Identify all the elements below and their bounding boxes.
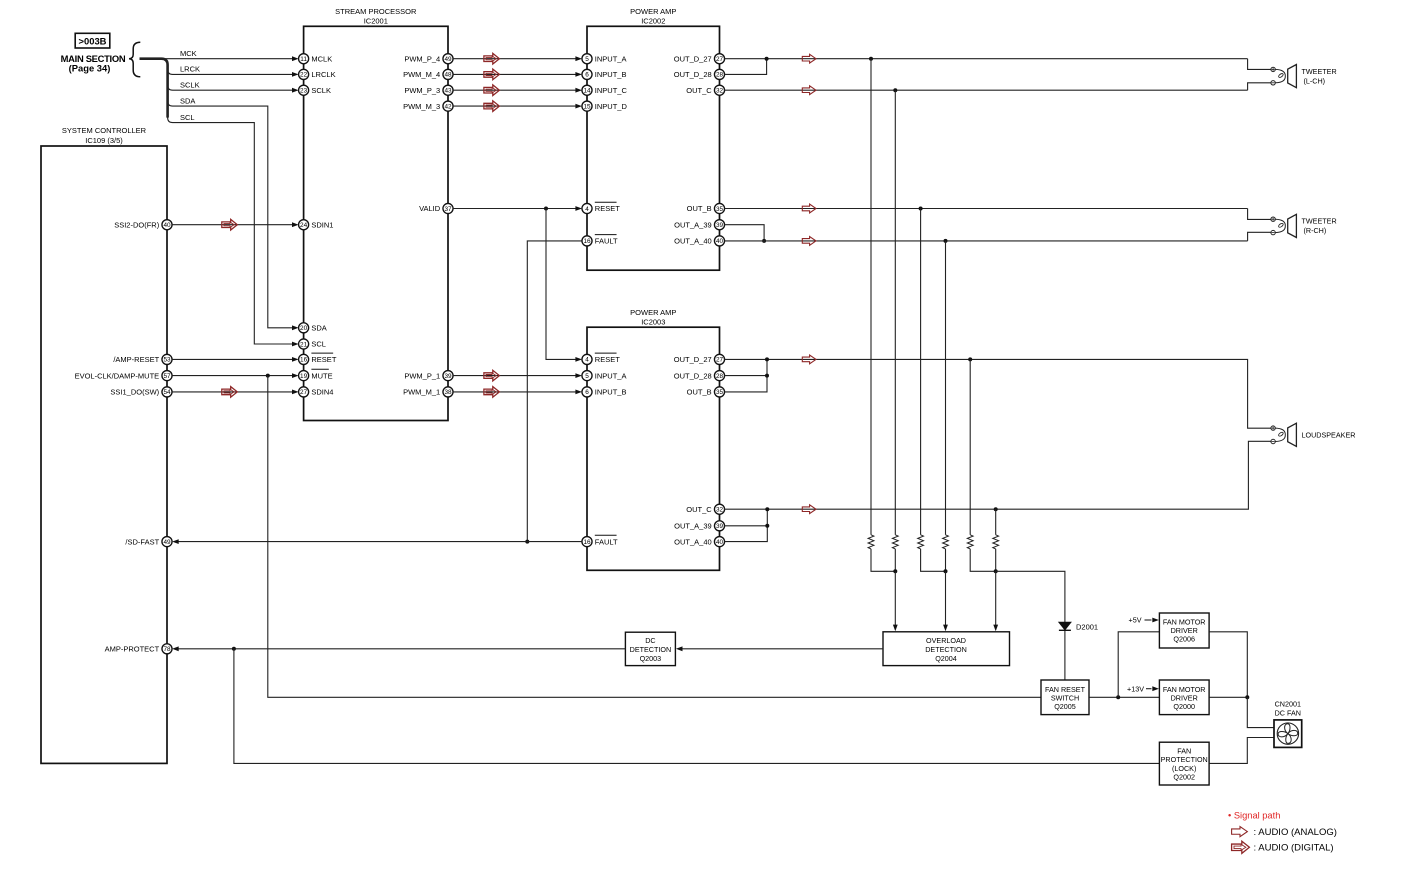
svg-text:EVOL-CLK/DAMP-MUTE: EVOL-CLK/DAMP-MUTE — [75, 371, 160, 380]
pin 38 PWM_M_1 (IC2001 right) — [403, 387, 453, 397]
svg-text:D2001: D2001 — [1076, 623, 1098, 632]
wire EVOL-CLK to MUTE — [172, 373, 299, 378]
svg-text:(L-CH): (L-CH) — [1304, 76, 1326, 85]
wire LRCK — [168, 65, 299, 77]
svg-text:PWM_M_1: PWM_M_1 — [403, 388, 440, 397]
wire drivers to fan — [1247, 697, 1274, 727]
junction VALID — [544, 207, 548, 211]
junction tap2 — [893, 88, 897, 92]
svg-text:DC: DC — [645, 636, 655, 645]
svg-text:19: 19 — [300, 373, 308, 380]
svg-text:INPUT_C: INPUT_C — [595, 86, 628, 95]
svg-text:+5V: +5V — [1129, 616, 1142, 625]
tweeter R-CH — [1271, 214, 1337, 237]
wire riser to Q2006 — [1118, 632, 1159, 698]
wire EVOL branch to fan reset switch — [268, 376, 1041, 698]
wire tap vertical 1 — [870, 59, 872, 535]
wire PWM_P_1 to INPUT_A IC2003 — [453, 370, 582, 381]
svg-text:IC2001: IC2001 — [364, 17, 388, 26]
dc detection Q2003 box — [625, 632, 675, 665]
svg-text:VALID: VALID — [419, 204, 441, 213]
svg-text:MCK: MCK — [180, 49, 197, 58]
svg-text:INPUT_D: INPUT_D — [595, 102, 628, 111]
svg-text:INPUT_B: INPUT_B — [595, 70, 627, 79]
junction OUT_D IC2003 join top — [765, 357, 769, 361]
wire PWM_M_1 to INPUT_B IC2003 — [453, 387, 582, 398]
svg-text:+13V: +13V — [1127, 684, 1144, 693]
power amp IC2002 box — [587, 7, 720, 270]
wire FAULT IC2002 down — [527, 241, 582, 542]
wire OUT_A_39 IC2003 link — [724, 525, 767, 527]
wire OUT_C IC2002 to tweeter L — [724, 86, 1247, 95]
svg-text:OUT_D_27: OUT_D_27 — [674, 355, 712, 364]
pin 28 OUT_D_28 (IC2003 right) — [674, 371, 725, 381]
pin 6 INPUT_B (IC2003 left) — [582, 387, 627, 397]
svg-text:48: 48 — [444, 72, 452, 79]
svg-text:27: 27 — [300, 389, 308, 396]
svg-text:RESET: RESET — [311, 355, 336, 364]
svg-text:AMP-PROTECT: AMP-PROTECT — [105, 645, 160, 654]
svg-text:(LOCK): (LOCK) — [1172, 764, 1196, 773]
pin 16 FAULT (IC2003 left) — [582, 535, 618, 546]
svg-text:PWM_P_4: PWM_P_4 — [404, 54, 440, 63]
pin 15 INPUT_D (IC2002 left) — [582, 101, 628, 111]
power amp IC2003 box — [587, 308, 720, 570]
legend digital arrow — [1232, 841, 1334, 853]
svg-text:40: 40 — [716, 539, 724, 546]
resistor 3 — [918, 535, 924, 549]
svg-text:32: 32 — [716, 507, 724, 514]
wire tweeter L steps — [1248, 59, 1271, 70]
svg-text:>003B: >003B — [79, 36, 107, 47]
svg-text:(R-CH): (R-CH) — [1304, 226, 1327, 235]
pin 39 OUT_A_39 (IC2002 right) — [674, 220, 724, 230]
svg-text:OUT_D_28: OUT_D_28 — [674, 371, 712, 380]
junction OUT_D IC2003 join mid — [765, 374, 769, 378]
svg-text:14: 14 — [583, 88, 591, 95]
svg-text:PWM_P_1: PWM_P_1 — [404, 371, 440, 380]
svg-text:27: 27 — [716, 56, 724, 63]
junction tap4 — [944, 239, 948, 243]
svg-text:23: 23 — [300, 88, 308, 95]
wire dc detection to AMP-PROTECT — [172, 646, 625, 651]
pin 11 MCLK (IC2001 left) — [299, 54, 333, 64]
pin 27 OUT_D_27 (IC2002 right) — [674, 54, 725, 64]
junction OUT_A39 IC2003 join — [765, 524, 769, 528]
svg-text:SDA: SDA — [180, 96, 195, 105]
resistor 1 — [868, 535, 874, 549]
resistor 2 — [892, 535, 898, 549]
junction tap5 — [968, 357, 972, 361]
wire pair1 into overload detection — [893, 571, 898, 631]
pin 23 SCLK (IC2001 left) — [299, 85, 331, 95]
svg-text:Q2004: Q2004 — [935, 654, 957, 663]
resistor 4 — [943, 535, 949, 549]
wire branch to fan protection — [234, 649, 1160, 764]
junction driver outputs — [1245, 695, 1249, 699]
wire OUT_B to tweeter R — [724, 204, 1247, 213]
svg-text:42: 42 — [444, 103, 452, 110]
svg-text:39: 39 — [716, 222, 724, 229]
svg-text:Q2000: Q2000 — [1173, 702, 1195, 711]
svg-text:RESET: RESET — [595, 355, 620, 364]
svg-text:4: 4 — [585, 206, 589, 213]
svg-text:OUT_B: OUT_B — [687, 204, 712, 213]
wire OUT_A_40 IC2003 link — [724, 509, 767, 541]
svg-text:SDIN1: SDIN1 — [311, 220, 333, 229]
wire OUT_D_27 to tweeter L — [724, 54, 1247, 63]
wire tap vertical 4 — [945, 241, 947, 535]
svg-text:LRCLK: LRCLK — [311, 70, 335, 79]
fan motor driver Q2000 box — [1159, 680, 1209, 715]
pin 35 OUT_B (IC2003 right) — [687, 387, 725, 397]
pin 16 FAULT (IC2002 left) — [582, 235, 618, 246]
svg-text:INPUT_A: INPUT_A — [595, 371, 627, 380]
system controller IC109 box — [41, 126, 167, 763]
svg-text:6: 6 — [585, 72, 589, 79]
wire SCL — [168, 113, 299, 347]
wire SSI2-DO to SDIN1 — [172, 219, 299, 230]
resistor 6 — [993, 535, 999, 549]
svg-text:DRIVER: DRIVER — [1171, 626, 1198, 635]
wire OUT_D_28 link — [724, 59, 766, 75]
svg-text:/AMP-RESET: /AMP-RESET — [113, 355, 159, 364]
svg-text:OUT_D_28: OUT_D_28 — [674, 70, 712, 79]
svg-text:POWER AMP: POWER AMP — [630, 308, 676, 317]
svg-text:FAULT: FAULT — [595, 537, 618, 546]
svg-text:SDA: SDA — [311, 324, 326, 333]
svg-text:27: 27 — [716, 357, 724, 364]
svg-text:54: 54 — [163, 389, 171, 396]
wire fault row to /SD-FAST — [172, 539, 582, 544]
legend analog arrow — [1232, 827, 1337, 838]
svg-text:MUTE: MUTE — [311, 371, 332, 380]
svg-text:35: 35 — [716, 206, 724, 213]
junction OUT_C IC2003 join — [765, 507, 769, 511]
pin 6 INPUT_B (IC2002 left) — [582, 69, 627, 79]
svg-text:IC109 (3/5): IC109 (3/5) — [85, 136, 123, 145]
svg-text:32: 32 — [716, 88, 724, 95]
wire VALID to RESET IC2002 — [453, 206, 582, 211]
svg-text:FAN: FAN — [1177, 746, 1191, 755]
svg-text:SSI2-DO(FR): SSI2-DO(FR) — [114, 220, 160, 229]
svg-text:OUT_A_40: OUT_A_40 — [674, 537, 712, 546]
overload detection Q2004 box — [883, 632, 1010, 666]
svg-text:Q2003: Q2003 — [640, 654, 662, 663]
svg-text:LOUDSPEAKER: LOUDSPEAKER — [1302, 430, 1356, 439]
svg-text:PWM_M_3: PWM_M_3 — [403, 102, 440, 111]
svg-text:5: 5 — [585, 56, 589, 63]
pin 5 INPUT_A (IC2003 left) — [582, 371, 627, 381]
stream processor IC2001 box — [304, 7, 448, 420]
svg-text:SCL: SCL — [311, 340, 326, 349]
svg-text:RESET: RESET — [595, 204, 620, 213]
wire fan reset output — [1089, 696, 1159, 698]
wire SDA — [168, 96, 299, 330]
pin 32 OUT_C (IC2003 right) — [686, 504, 724, 514]
wire OUT_B IC2003 link — [724, 359, 767, 392]
pin 37 VALID (IC2001 right) — [419, 203, 453, 213]
pin 40 SSI2-DO(FR) — [114, 220, 172, 230]
junction tap1 — [869, 57, 873, 61]
svg-text:LRCK: LRCK — [180, 65, 200, 74]
wire overload to dc detection — [676, 646, 883, 651]
pin 4 RESET (IC2003 left) — [582, 353, 620, 364]
wire tap vertical 2 — [894, 90, 896, 535]
pin 5 INPUT_A (IC2002 left) — [582, 54, 627, 64]
pin 78 AMP-PROTECT — [105, 644, 172, 654]
svg-text:OUT_D_27: OUT_D_27 — [674, 54, 712, 63]
svg-text:24: 24 — [300, 222, 308, 229]
wire OUT_A_39 link — [724, 225, 764, 241]
svg-text:20: 20 — [300, 325, 308, 332]
wire PWM_P_4 to input — [453, 53, 582, 64]
pin 27 OUT_D_27 (IC2003 right) — [674, 354, 725, 364]
svg-text:OUT_A_40: OUT_A_40 — [674, 237, 712, 246]
svg-text:4: 4 — [585, 357, 589, 364]
svg-text:: AUDIO (ANALOG): : AUDIO (ANALOG) — [1254, 827, 1337, 838]
svg-text:PWM_P_3: PWM_P_3 — [404, 86, 440, 95]
junction OUT_A join — [762, 239, 766, 243]
svg-text:: AUDIO (DIGITAL): : AUDIO (DIGITAL) — [1254, 843, 1334, 854]
wire /AMP-RESET to RESET — [172, 357, 299, 362]
svg-text:FAN MOTOR: FAN MOTOR — [1163, 685, 1206, 694]
bus trunk wire — [140, 59, 168, 118]
wire SSI1_DO to SDIN4 — [172, 387, 299, 398]
pin 32 OUT_C (IC2002 right) — [686, 85, 724, 95]
pin 53 /AMP-RESET — [113, 354, 172, 364]
junction tap3 — [919, 207, 923, 211]
svg-text:FAN RESET: FAN RESET — [1045, 685, 1086, 694]
svg-text:SDIN4: SDIN4 — [311, 388, 333, 397]
brace — [129, 42, 140, 77]
pin 16 RESET (IC2001 left) — [299, 353, 337, 364]
svg-text:SSI1_DO(SW): SSI1_DO(SW) — [110, 388, 159, 397]
pin 49 PWM_P_4 (IC2001 right) — [404, 54, 453, 64]
svg-text:Q2006: Q2006 — [1173, 635, 1195, 644]
svg-text:SCLK: SCLK — [311, 86, 331, 95]
svg-text:SCL: SCL — [180, 113, 195, 122]
svg-text:INPUT_B: INPUT_B — [595, 388, 627, 397]
svg-text:40: 40 — [163, 222, 171, 229]
pin 40 OUT_A_40 (IC2003 right) — [674, 537, 724, 547]
pin 20 SDA (IC2001 left) — [299, 323, 327, 333]
svg-text:21: 21 — [300, 341, 308, 348]
svg-text:DETECTION: DETECTION — [630, 645, 672, 654]
wire tap vertical 6 — [995, 509, 997, 535]
wire PWM_P_3 to input — [453, 85, 582, 96]
svg-text:37: 37 — [444, 206, 452, 213]
svg-text:Q2002: Q2002 — [1173, 773, 1195, 782]
wire PWM_M_4 to input — [453, 69, 582, 80]
pin 43 PWM_P_3 (IC2001 right) — [404, 85, 453, 95]
svg-text:TWEETER: TWEETER — [1302, 67, 1337, 76]
svg-text:• Signal path: • Signal path — [1228, 811, 1280, 821]
svg-text:STREAM PROCESSOR: STREAM PROCESSOR — [335, 7, 417, 16]
pin 49 /SD-FAST — [125, 537, 172, 547]
pin 21 SCL (IC2001 left) — [299, 339, 326, 349]
wire pair3 into overload detection — [993, 571, 998, 631]
svg-text:PROTECTION: PROTECTION — [1161, 755, 1208, 764]
wire resistor bottoms pair 1 — [871, 549, 895, 571]
svg-text:SYSTEM CONTROLLER: SYSTEM CONTROLLER — [62, 126, 147, 135]
pin 19 MUTE (IC2001 left) — [299, 369, 333, 380]
wire tap vertical 5 — [969, 359, 971, 534]
svg-text:22: 22 — [300, 72, 308, 79]
svg-text:5: 5 — [585, 373, 589, 380]
pin 14 INPUT_C (IC2002 left) — [582, 85, 628, 95]
fan motor driver Q2006 box — [1159, 613, 1209, 648]
svg-text:DRIVER: DRIVER — [1171, 694, 1198, 703]
svg-text:28: 28 — [716, 373, 724, 380]
svg-text:OUT_A_39: OUT_A_39 — [674, 220, 712, 229]
svg-text:(Page 34): (Page 34) — [69, 63, 111, 74]
pin 39 OUT_A_39 (IC2003 right) — [674, 521, 724, 531]
wire OUT_D_27 IC2003 to loudspeaker — [724, 355, 1271, 428]
svg-text:78: 78 — [163, 646, 171, 653]
loudspeaker — [1271, 423, 1356, 446]
legend signal path — [1228, 811, 1280, 821]
svg-text:POWER AMP: POWER AMP — [630, 7, 676, 16]
pin 27 SDIN4 (IC2001 left) — [299, 387, 334, 397]
svg-text:OUT_A_39: OUT_A_39 — [674, 522, 712, 531]
pin 35 OUT_B (IC2002 right) — [687, 203, 725, 213]
junction OUT_D join — [765, 57, 769, 61]
junction pair 2 — [944, 569, 948, 573]
svg-text:16: 16 — [583, 539, 591, 546]
pin 39 PWM_P_1 (IC2001 right) — [404, 371, 453, 381]
pin 54 SSI1_DO(SW) — [110, 387, 172, 397]
pin 28 OUT_D_28 (IC2002 right) — [674, 69, 725, 79]
svg-text:40: 40 — [716, 238, 724, 245]
wire pair2 into overload detection — [943, 571, 948, 631]
svg-text:OUT_C: OUT_C — [686, 86, 712, 95]
svg-text:49: 49 — [444, 56, 452, 63]
main section note — [61, 53, 126, 74]
svg-text:15: 15 — [583, 103, 591, 110]
svg-text:IC2002: IC2002 — [641, 17, 665, 26]
pin 24 SDIN1 (IC2001 left) — [299, 220, 334, 230]
wire OUT_C IC2003 to loudspeaker — [724, 441, 1271, 513]
junction EVOL branch — [266, 374, 270, 378]
pin 4 RESET (IC2002 left) — [582, 202, 620, 213]
svg-text:6: 6 — [585, 389, 589, 396]
svg-text:39: 39 — [444, 373, 452, 380]
wire OUT_A_40 to tweeter R — [724, 237, 1247, 246]
svg-text:28: 28 — [716, 72, 724, 79]
svg-text:OVERLOAD: OVERLOAD — [926, 636, 966, 645]
wire Q2000 output — [1209, 696, 1247, 698]
svg-text:SWITCH: SWITCH — [1051, 694, 1079, 703]
wire MCK — [162, 49, 299, 61]
svg-text:SCLK: SCLK — [180, 80, 200, 89]
svg-text:DETECTION: DETECTION — [925, 645, 967, 654]
svg-text:43: 43 — [444, 88, 452, 95]
diode D2001 — [1059, 622, 1098, 631]
+5V supply — [1129, 616, 1159, 625]
junction tap6 — [994, 507, 998, 511]
pin 57 EVOL-CLK/DAMP-MUTE — [75, 371, 172, 381]
svg-text:MCLK: MCLK — [311, 54, 332, 63]
+13V supply — [1127, 684, 1159, 693]
wire resistor bottoms pair 2 — [921, 549, 946, 571]
svg-text:DC FAN: DC FAN — [1275, 709, 1301, 718]
svg-text:35: 35 — [716, 389, 724, 396]
connector CN2001 DC FAN — [1274, 700, 1302, 748]
fan reset switch Q2005 box — [1041, 680, 1089, 715]
resistor 5 — [967, 535, 973, 549]
svg-text:OUT_B: OUT_B — [687, 388, 712, 397]
svg-text:38: 38 — [444, 389, 452, 396]
wire to diode D2001 — [996, 571, 1065, 680]
wire Q2006 output — [1209, 632, 1247, 698]
svg-text:Q2005: Q2005 — [1054, 702, 1076, 711]
fan protection Q2002 box — [1159, 742, 1209, 785]
svg-text:TWEETER: TWEETER — [1302, 217, 1337, 226]
junction pair 3 — [994, 569, 998, 573]
wire resistor bottoms pair 3 — [970, 549, 996, 571]
svg-text:CN2001: CN2001 — [1275, 700, 1301, 709]
reference label >003B — [75, 33, 110, 48]
tweeter L-CH — [1271, 65, 1337, 88]
wire tweeter R steps — [1248, 209, 1271, 220]
svg-text:16: 16 — [300, 357, 308, 364]
pin 42 PWM_M_3 (IC2001 right) — [403, 101, 453, 111]
svg-text:PWM_M_4: PWM_M_4 — [403, 70, 440, 79]
svg-text:OUT_C: OUT_C — [686, 505, 712, 514]
wire fan to fan protection — [1209, 738, 1274, 764]
junction pair 1 — [893, 569, 897, 573]
svg-text:53: 53 — [163, 357, 171, 364]
svg-text:16: 16 — [583, 238, 591, 245]
junction AMP-PROTECT branch — [232, 647, 236, 651]
wire PWM_M_3 to input — [453, 101, 582, 112]
svg-text:FAN MOTOR: FAN MOTOR — [1163, 617, 1206, 626]
svg-text:11: 11 — [300, 56, 307, 63]
svg-text:FAULT: FAULT — [595, 237, 618, 246]
pin 40 OUT_A_40 (IC2002 right) — [674, 236, 724, 246]
wire OUT_D_28 IC2003 link — [724, 375, 767, 377]
pin 22 LRCLK (IC2001 left) — [299, 69, 336, 79]
wire VALID branch to RESET IC2003 — [546, 209, 582, 362]
junction fan riser — [1116, 695, 1120, 699]
svg-text:/SD-FAST: /SD-FAST — [125, 537, 159, 546]
wire SCLK — [168, 80, 299, 92]
svg-text:39: 39 — [716, 523, 724, 530]
svg-text:INPUT_A: INPUT_A — [595, 54, 627, 63]
svg-text:57: 57 — [163, 373, 171, 380]
svg-text:49: 49 — [163, 539, 171, 546]
wire tap vertical 3 — [920, 209, 922, 535]
junction FAULT — [525, 540, 529, 544]
svg-text:IC2003: IC2003 — [641, 318, 665, 327]
pin 48 PWM_M_4 (IC2001 right) — [403, 69, 453, 79]
